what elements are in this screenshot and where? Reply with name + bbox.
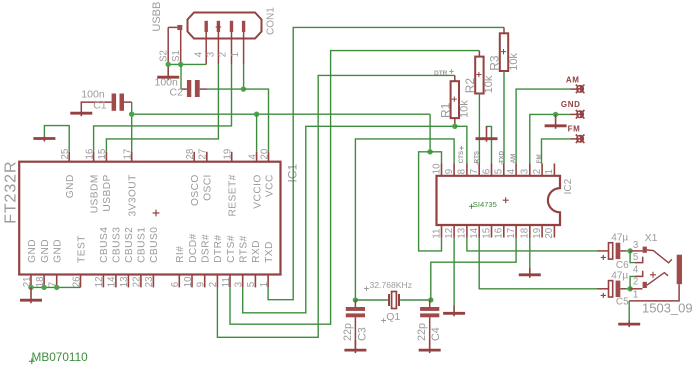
CON1 pin lead x=218.4 xyxy=(217,32,219,64)
svg-text:4: 4 xyxy=(633,264,639,275)
wire crystal right up to IC2 pin17 xyxy=(431,238,516,301)
svg-text:47µ: 47µ xyxy=(611,270,628,281)
IC2 top pin 10 stub xyxy=(441,164,443,176)
X1 pin4 lead xyxy=(635,271,643,277)
svg-text:11: 11 xyxy=(221,277,232,287)
wire 3V3 to IC1 pin4 xyxy=(256,114,258,152)
svg-text:R1: R1 xyxy=(438,102,452,118)
svg-text:SI4735: SI4735 xyxy=(473,200,497,209)
IC1 bottom pin 7 stub xyxy=(56,275,58,288)
svg-text:10k: 10k xyxy=(483,75,495,93)
svg-text:4: 4 xyxy=(194,51,205,57)
wire IC2 pin12 down xyxy=(453,238,455,306)
IC2 top pin 8 stub xyxy=(466,164,468,176)
IC1 bottom pin 10 stub xyxy=(191,275,193,288)
wire R3 bottom to IC2 pin5 xyxy=(503,71,505,164)
wire junction to IC1 pin20 VCC xyxy=(243,89,268,152)
IC2 bottom pin 14 stub xyxy=(478,225,480,238)
R1 bottom lead xyxy=(454,118,456,126)
svg-text:1: 1 xyxy=(259,282,270,287)
svg-text:OSCO: OSCO xyxy=(190,174,201,206)
svg-text:USBDM: USBDM xyxy=(89,174,100,213)
svg-text:22p: 22p xyxy=(342,323,354,341)
svg-text:3: 3 xyxy=(234,282,245,287)
CON1 pin lead x=243.6 xyxy=(243,32,245,64)
svg-text:FT232R: FT232R xyxy=(3,161,20,224)
svg-text:20: 20 xyxy=(259,148,270,159)
resistor R3 body xyxy=(500,33,508,71)
svg-text:1: 1 xyxy=(633,289,638,300)
svg-text:OSCI: OSCI xyxy=(203,174,214,201)
C4 bottom lead xyxy=(429,317,431,349)
svg-text:14: 14 xyxy=(107,276,118,287)
wire USB pin1 down xyxy=(243,64,245,89)
svg-text:IC2: IC2 xyxy=(563,178,574,194)
svg-text:CON1: CON1 xyxy=(266,7,277,35)
wire X1 pin5 tie xyxy=(630,251,635,263)
svg-text:DTR: DTR xyxy=(434,70,448,77)
wire R2 bottom to IC2 pin7 xyxy=(478,94,480,164)
junction gnd pin18 xyxy=(41,285,46,290)
IC1 top pin 16 stub xyxy=(93,152,95,162)
svg-text:6: 6 xyxy=(170,282,181,287)
IC1 bottom pin 6 stub xyxy=(178,275,180,288)
junction GND pad net xyxy=(553,112,558,117)
IC1 top pin 15 stub xyxy=(105,152,107,162)
IC1 top pin 20 stub xyxy=(268,152,270,162)
svg-text:5: 5 xyxy=(494,169,505,174)
svg-text:16: 16 xyxy=(494,228,505,239)
svg-text:10: 10 xyxy=(183,276,194,287)
wire IC1 pin25 to ground xyxy=(44,126,69,152)
ground under S2 xyxy=(157,64,179,80)
svg-text:CTS: CTS xyxy=(458,151,465,163)
C4 top lead xyxy=(429,300,431,307)
wire C6 to X1 junction xyxy=(626,250,630,252)
svg-text:17: 17 xyxy=(506,228,517,239)
tick of TXD label xyxy=(501,161,503,165)
svg-text:FM: FM xyxy=(568,124,581,133)
IC2 bottom pin 19 stub xyxy=(541,225,543,238)
ground at X1 pin1 xyxy=(618,321,640,328)
wire CTS# to R2 top xyxy=(230,51,479,325)
svg-text:CBUS0: CBUS0 xyxy=(149,227,160,263)
svg-text:CBUS3: CBUS3 xyxy=(112,227,123,263)
svg-text:3: 3 xyxy=(206,52,217,57)
svg-text:GND: GND xyxy=(40,239,51,263)
IC1 bottom pin 21 stub xyxy=(30,275,32,288)
svg-text:MB070110: MB070110 xyxy=(32,350,89,364)
IC1 bottom pin 13 stub xyxy=(127,275,129,288)
origin cross of MB070110 xyxy=(29,358,35,364)
svg-text:22: 22 xyxy=(132,276,143,287)
origin cross R2 xyxy=(476,72,481,77)
svg-text:28: 28 xyxy=(185,149,196,160)
IC2 top pin 3 stub xyxy=(529,164,531,176)
junction 3V3 at C1 xyxy=(129,112,134,117)
ground at IC2 pin18 xyxy=(519,268,541,278)
svg-text:16: 16 xyxy=(84,149,95,160)
origin cross X1 xyxy=(650,272,656,278)
svg-text:5: 5 xyxy=(633,252,638,263)
svg-text:13: 13 xyxy=(457,228,468,239)
FM pad lead xyxy=(571,138,577,140)
C3 bottom lead xyxy=(354,317,356,349)
ground under C1 xyxy=(70,112,92,117)
IC1 bottom pin 12 stub xyxy=(102,275,104,288)
wire RTS# to R1 bottom xyxy=(243,126,455,312)
svg-text:C1: C1 xyxy=(93,100,107,112)
resistor R1 body xyxy=(451,81,459,118)
svg-text:19: 19 xyxy=(223,149,234,160)
svg-text:CBUS2: CBUS2 xyxy=(124,227,135,263)
svg-text:15: 15 xyxy=(97,149,108,160)
wire junction to IC2 pin10 xyxy=(430,152,441,164)
capacitor C4 plates xyxy=(420,307,439,311)
svg-text:1: 1 xyxy=(544,169,555,174)
wire IC2 pin6 to ground xyxy=(487,126,492,163)
svg-text:AM: AM xyxy=(566,75,580,84)
IC2 top pin 4 stub xyxy=(515,164,517,176)
svg-text:GND: GND xyxy=(65,174,76,198)
wire X1 pin4 tie xyxy=(630,276,635,288)
op-amp IC1 FT232R body xyxy=(19,162,280,275)
crystal Q1 xyxy=(389,292,399,309)
tick of DTR label xyxy=(449,69,453,73)
IC1 bottom pin 23 stub xyxy=(152,275,154,288)
svg-text:GND: GND xyxy=(53,239,64,263)
wire IC2 pin4 to AM pad xyxy=(516,89,570,163)
IC2 bottom pin 15 stub xyxy=(491,225,493,238)
pad FM antenna xyxy=(576,135,585,144)
svg-text:10k: 10k xyxy=(459,100,471,118)
wire R1 bottom to IC2 pin8 xyxy=(455,126,467,163)
svg-text:R2: R2 xyxy=(463,78,477,94)
svg-text:+: + xyxy=(600,252,606,264)
IC2 bottom pin 16 stub xyxy=(503,225,505,238)
IC2 bottom pin 13 stub xyxy=(466,225,468,238)
C1 left lead and ground stub xyxy=(81,102,111,111)
svg-text:12: 12 xyxy=(94,276,105,287)
wire C2 to USB pin1 junction xyxy=(207,88,243,90)
ground under C3 xyxy=(344,340,366,353)
wire IC2 pin13 to C6 xyxy=(467,238,597,251)
C5 right lead xyxy=(620,288,626,290)
svg-text:VCCIO: VCCIO xyxy=(252,174,263,209)
IC1 top pin 19 stub xyxy=(231,152,233,162)
origin cross R1 xyxy=(452,97,457,102)
IC2 top pin 6 stub xyxy=(491,164,493,176)
svg-text:47µ: 47µ xyxy=(611,232,628,243)
svg-text:23: 23 xyxy=(144,276,155,287)
wire junction left-down to IC2 pin11 xyxy=(419,152,442,251)
origin cross IC1 xyxy=(153,210,160,217)
svg-text:C2: C2 xyxy=(170,86,184,98)
IC1 bottom pin 22 stub xyxy=(140,275,142,288)
junction C6 / X1 pin3 xyxy=(627,248,632,253)
svg-text:S2: S2 xyxy=(158,50,169,62)
pin S1 line xyxy=(180,30,182,64)
svg-text:CTS#: CTS# xyxy=(226,235,237,263)
wire IC2 pin14 to C5 xyxy=(479,238,597,289)
svg-text:4: 4 xyxy=(506,168,517,174)
C2 right lead xyxy=(200,88,207,90)
svg-text:17: 17 xyxy=(123,149,134,160)
capacitor C2 plates xyxy=(187,80,191,97)
svg-text:C4: C4 xyxy=(430,327,442,341)
tick of RTS label xyxy=(476,161,478,165)
svg-text:15: 15 xyxy=(481,228,492,239)
junction crystal left xyxy=(353,297,358,302)
IC1 bottom pin 2 stub xyxy=(216,275,218,288)
svg-text:8: 8 xyxy=(457,169,468,174)
X1 sleeve bar xyxy=(677,255,682,285)
connector CON1 pin bar 4 xyxy=(205,21,208,32)
GND pad lead xyxy=(571,113,577,115)
svg-text:3: 3 xyxy=(520,169,531,174)
svg-text:X1: X1 xyxy=(645,232,658,244)
IC2 top pin 7 stub xyxy=(478,164,480,176)
svg-text:TEST: TEST xyxy=(76,235,87,263)
svg-text:GND: GND xyxy=(561,100,581,109)
wire 3V3 bus xyxy=(132,113,430,115)
IC1 bottom pin 1 stub xyxy=(267,275,269,288)
svg-text:S1: S1 xyxy=(171,50,182,62)
capacitor C3 plates xyxy=(346,307,365,311)
C5 left lead xyxy=(597,288,609,290)
junction S1 xyxy=(178,62,183,67)
R1 top lead xyxy=(454,75,456,81)
svg-text:Q1: Q1 xyxy=(386,311,400,323)
wire IC2 pin2 to FM pad xyxy=(542,139,571,164)
connector CON1 outline xyxy=(188,13,262,39)
IC1 bottom pin 11 stub xyxy=(229,275,231,288)
origin cross on CON1 pin 3 xyxy=(216,24,222,30)
IC1 top pin 27 stub xyxy=(206,152,208,162)
wire 3V3 bus down to IC2 pin10 xyxy=(429,114,431,152)
svg-text:13: 13 xyxy=(119,276,130,287)
op-amp IC2 SI4735 body xyxy=(437,176,561,225)
R2 top lead xyxy=(478,51,480,57)
svg-text:2: 2 xyxy=(532,169,543,174)
CON1 pin lead x=206.2 xyxy=(205,32,207,64)
wire VCC bus down to IC1 pin17 xyxy=(131,114,133,152)
svg-text:14: 14 xyxy=(469,227,480,238)
IC1 bottom pin 9 stub xyxy=(204,275,206,288)
origin cross SI4735 text xyxy=(469,204,474,209)
svg-text:2: 2 xyxy=(218,52,229,57)
pin S2 line xyxy=(167,27,169,64)
svg-text:32.768KHz: 32.768KHz xyxy=(370,280,413,290)
capacitor C1 plates xyxy=(112,94,117,111)
C6 right lead xyxy=(620,250,626,252)
origin cross IC2 xyxy=(503,197,509,203)
svg-text:9: 9 xyxy=(444,169,455,174)
ground at IC2 pin6 xyxy=(476,126,498,141)
AM pad lead xyxy=(571,88,577,90)
connector CON1 pin bar 3 xyxy=(217,21,220,32)
svg-text:DCD#: DCD# xyxy=(188,233,199,263)
connector CON1 pin bar 2 xyxy=(230,21,233,32)
wire X1 pin1 to ground xyxy=(628,301,630,321)
svg-text:9: 9 xyxy=(196,282,207,287)
IC1 bottom pin 14 stub xyxy=(115,275,117,288)
wire IC2 pin9 to crystal left xyxy=(355,139,454,300)
IC2 bottom pin 17 stub xyxy=(515,225,517,238)
junction USB pin1 / C2 / VCC xyxy=(241,86,246,91)
X1 tip contact upper xyxy=(643,247,647,253)
ground under C4 xyxy=(419,340,441,353)
wire C5 to X1 junction xyxy=(626,288,630,290)
wire S1 junction down to C2 xyxy=(180,64,182,89)
CON1 pin lead x=231.5 xyxy=(231,32,233,64)
wire shield square to S2 line xyxy=(168,26,177,28)
svg-text:C5: C5 xyxy=(616,297,629,308)
tick of Q1 label xyxy=(381,318,386,323)
wire DTR# to R1 top xyxy=(217,75,454,337)
junction 3V3 at IC2 pin10 xyxy=(427,149,432,154)
C6 left lead xyxy=(597,250,609,252)
tick of CTS label xyxy=(460,146,464,150)
svg-text:DTR#: DTR# xyxy=(213,234,224,262)
IC1 top pin 28 stub xyxy=(193,152,195,162)
svg-text:CBUS1: CBUS1 xyxy=(137,227,148,263)
C1 right lead xyxy=(124,101,132,103)
X1 upper switch lever xyxy=(647,250,672,263)
wire USB pin3 to IC1 pin15 USBDP xyxy=(106,64,218,151)
wire crystal right segment xyxy=(400,299,431,301)
capacitor C5 plates xyxy=(609,281,613,297)
IC2 top pin 1 stub xyxy=(553,164,555,176)
junction crystal right xyxy=(428,297,433,302)
junction S2 xyxy=(166,62,171,67)
svg-text:11: 11 xyxy=(431,229,442,239)
resistor R2 body xyxy=(475,57,483,94)
ground at IC2 pin12 xyxy=(443,306,465,317)
junction R1 bottom xyxy=(452,124,457,129)
svg-text:1503_09: 1503_09 xyxy=(642,300,693,315)
svg-text:1: 1 xyxy=(230,52,241,57)
svg-text:C3: C3 xyxy=(356,327,368,341)
wire IC1 ground net xyxy=(31,286,81,288)
CON1 shield square pad xyxy=(177,25,182,30)
IC1 bottom pin 3 stub xyxy=(242,275,244,288)
svg-text:7: 7 xyxy=(469,169,480,174)
svg-text:USBDP: USBDP xyxy=(102,174,113,211)
C3 top lead xyxy=(354,300,356,307)
X1 pin3 lead xyxy=(630,250,642,252)
svg-text:R3: R3 xyxy=(488,55,502,71)
svg-text:3: 3 xyxy=(633,240,638,251)
IC2 bottom pin 11 stub xyxy=(441,225,443,238)
IC1 top pin 17 stub xyxy=(131,152,133,162)
X1 pin5 lead xyxy=(635,257,643,263)
R3 top lead xyxy=(503,27,505,33)
wire S2-S1-pin4 net xyxy=(168,63,206,65)
IC2 top pin 9 stub xyxy=(453,164,455,176)
svg-text:RTS#: RTS# xyxy=(239,235,250,263)
svg-text:2: 2 xyxy=(208,282,219,287)
svg-text:+: + xyxy=(600,290,606,302)
svg-text:TXD: TXD xyxy=(264,241,275,263)
svg-text:10k: 10k xyxy=(508,53,520,71)
svg-text:20: 20 xyxy=(544,227,555,238)
X1 tip contact lower xyxy=(643,282,647,288)
svg-text:GND: GND xyxy=(27,239,38,263)
ground at GND pad xyxy=(545,114,567,128)
IC2 bottom pin 18 stub xyxy=(529,225,531,238)
junction gnd pin21 xyxy=(28,285,33,290)
wire USB pin2 to IC1 pin16 USBDM xyxy=(94,64,232,151)
IC2 bottom pin 20 stub xyxy=(553,225,555,238)
svg-text:RXD: RXD xyxy=(251,240,262,263)
svg-text:CBUS4: CBUS4 xyxy=(99,227,110,263)
svg-text:22p: 22p xyxy=(416,323,428,341)
wire crystal left segment xyxy=(355,299,388,301)
junction C5 / X1 pin2 xyxy=(627,286,632,291)
svg-text:USBB: USBB xyxy=(151,2,163,32)
svg-text:4: 4 xyxy=(247,154,258,160)
ground IC1 pin25 xyxy=(33,136,55,141)
X1 pin2 lead xyxy=(630,288,642,290)
svg-text:19: 19 xyxy=(532,228,543,239)
junction gnd pin7 xyxy=(54,285,59,290)
IC1 bottom pin 18 stub xyxy=(43,275,45,288)
capacitor C6 plates xyxy=(609,243,613,259)
svg-text:10: 10 xyxy=(431,163,442,174)
C2 left lead xyxy=(181,88,187,90)
svg-text:2: 2 xyxy=(633,277,638,288)
connector CON1 pin bar 1 xyxy=(242,21,245,32)
tick of 32.768KHz label xyxy=(364,286,369,291)
wire IC2 pin18 down xyxy=(529,238,531,269)
svg-text:3V3OUT: 3V3OUT xyxy=(128,174,139,216)
svg-text:RESET#: RESET# xyxy=(228,174,239,216)
svg-text:VCC: VCC xyxy=(264,174,275,197)
origin cross R3 xyxy=(501,49,506,54)
wire IC2 pin3 to GND pad xyxy=(530,114,571,163)
IC2 bottom pin 12 stub xyxy=(453,225,455,238)
svg-text:18: 18 xyxy=(520,228,531,239)
svg-text:27: 27 xyxy=(198,149,209,160)
svg-text:6: 6 xyxy=(481,169,492,174)
X1 lower switch lever xyxy=(647,273,668,286)
ground IC1 bottom xyxy=(20,287,42,303)
svg-text:5: 5 xyxy=(246,282,257,287)
wire TXD to R3 top xyxy=(268,27,504,299)
svg-text:100n: 100n xyxy=(81,88,105,100)
IC1 top pin 4 stub xyxy=(256,152,258,162)
wire C1 to VCC bus xyxy=(131,102,133,114)
IC2 top pin 2 stub xyxy=(541,164,543,176)
junction 3V3 at IC1 pin4 VCCIO xyxy=(254,112,259,117)
IC1 top pin 25 stub xyxy=(68,152,70,162)
svg-text:12: 12 xyxy=(444,228,455,239)
pad GND xyxy=(576,110,585,119)
IC1 bottom pin 5 stub xyxy=(254,275,256,288)
pad AM antenna xyxy=(576,85,585,94)
IC1 bottom pin 26 stub xyxy=(80,275,82,288)
svg-text:26: 26 xyxy=(71,276,82,287)
svg-text:RI#: RI# xyxy=(175,246,186,263)
X1 pin1 sleeve lead xyxy=(629,284,679,301)
svg-text:DSR#: DSR# xyxy=(201,234,212,263)
IC2 top pin 5 stub xyxy=(503,164,505,176)
